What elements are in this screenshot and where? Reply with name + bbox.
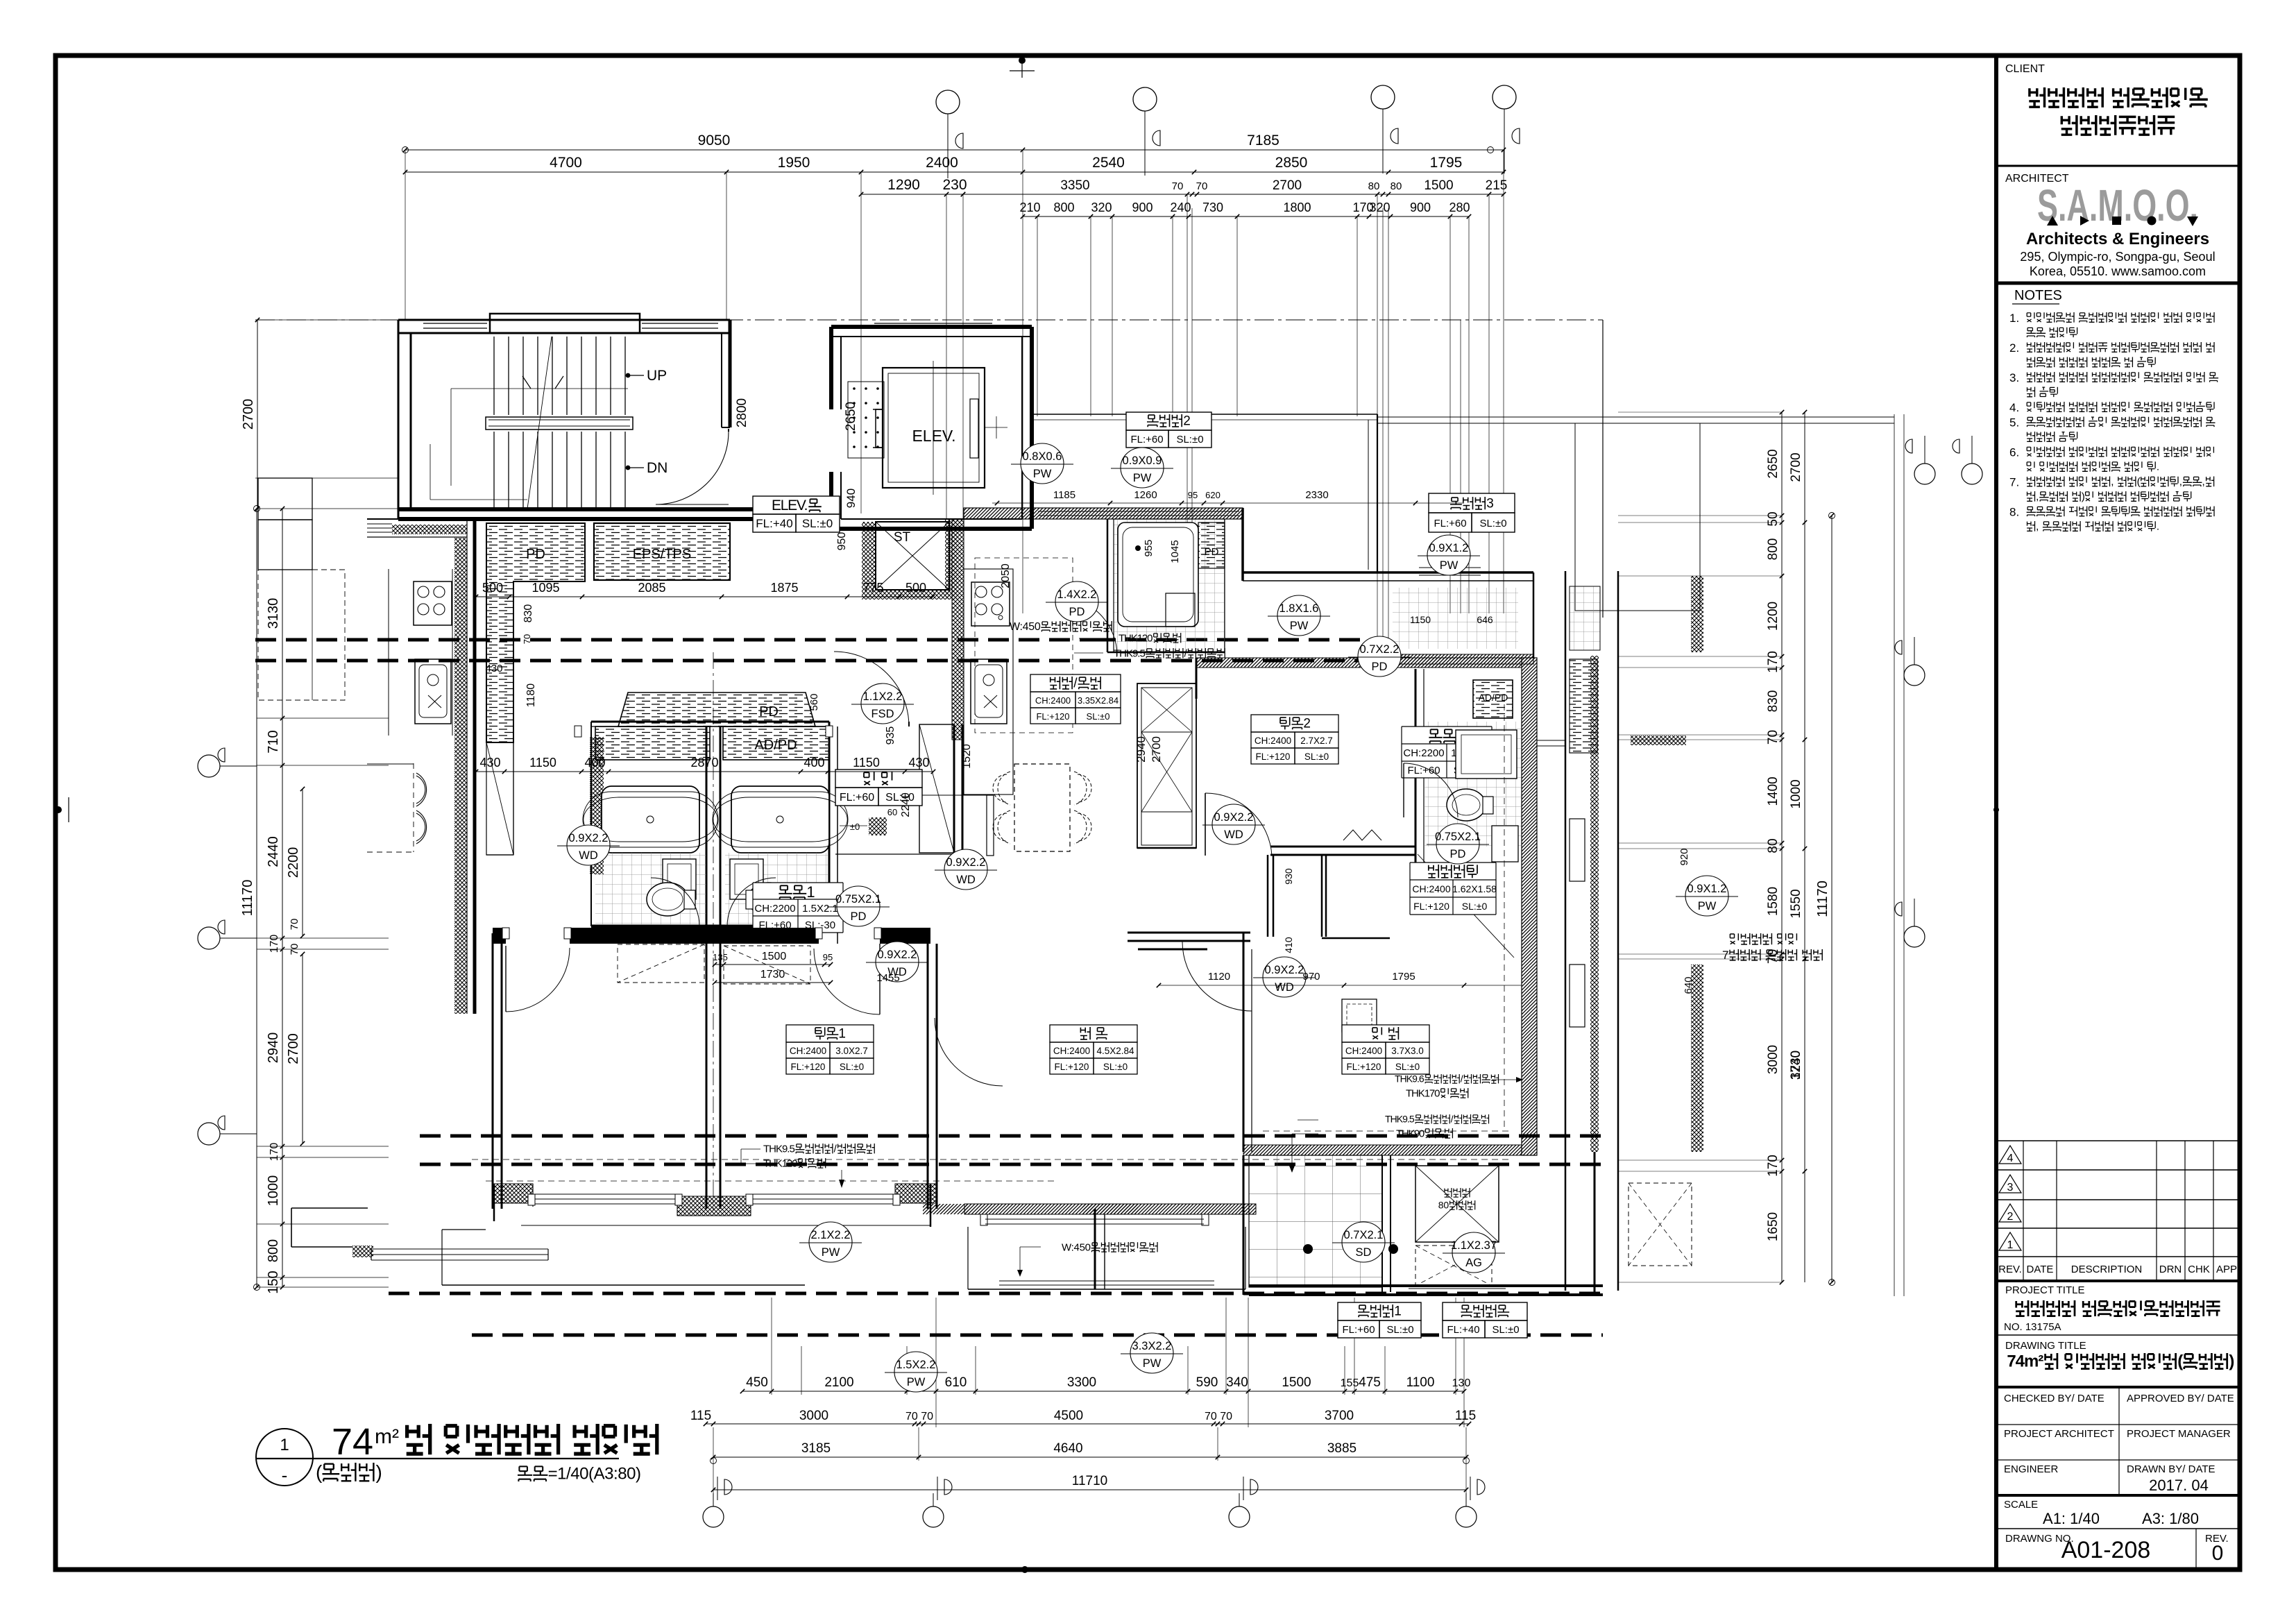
svg-text:FL:+120: FL:+120 (1036, 711, 1069, 722)
master door arc (1182, 942, 1252, 1011)
svg-text:1.: 1. (2009, 312, 2019, 325)
svg-text:1795: 1795 (1430, 155, 1463, 171)
balcony1 floor drain dots (1303, 1244, 1313, 1254)
bathroom tiled floors (595, 853, 706, 925)
opening label 3.3X2.2 PW (1130, 1333, 1173, 1373)
svg-text:,: , (2179, 476, 2182, 488)
bathroom2 tub small (1456, 730, 1517, 779)
svg-text:FL:+40: FL:+40 (756, 517, 792, 530)
balcony3 tiled floor (1393, 588, 1518, 649)
party hatched band left (454, 538, 467, 1014)
svg-text:W:450: W:450 (1062, 1241, 1091, 1253)
bath-top PD shaft (1198, 522, 1225, 568)
hall floor drain dots (848, 382, 884, 458)
svg-text:0.9X2.2: 0.9X2.2 (946, 856, 986, 869)
top dimension tier 1: 9050 / 7185 (405, 149, 1504, 151)
svg-text:3130: 3130 (266, 598, 281, 629)
svg-text:1000: 1000 (266, 1175, 281, 1207)
svg-text:1580: 1580 (1766, 887, 1780, 916)
bathroom2 label box (1402, 726, 1492, 778)
svg-text:80: 80 (1438, 1200, 1449, 1211)
svg-text:1455: 1455 (876, 972, 899, 984)
svg-text:935: 935 (885, 726, 896, 745)
svg-text:THK9.5: THK9.5 (1385, 1114, 1415, 1125)
building outline dash-dot line at top (255, 319, 1603, 321)
top dimension tier 3 (861, 194, 963, 195)
dressroom diagonal leader (1418, 854, 1514, 958)
svg-text:95: 95 (823, 952, 833, 962)
svg-text:70: 70 (289, 919, 300, 931)
stair flights (493, 337, 495, 415)
svg-text:0.7X2.2: 0.7X2.2 (1360, 643, 1400, 656)
top grid bubbles (936, 90, 960, 114)
neighbor bottom balcony step (441, 1230, 443, 1285)
svg-text:(: ( (316, 1461, 323, 1483)
right grid bubbles (1914, 464, 1935, 484)
svg-text:170: 170 (1766, 651, 1780, 673)
svg-text:SL:±0: SL:±0 (1479, 518, 1506, 529)
svg-text:FL:+60: FL:+60 (1407, 765, 1440, 776)
svg-text:74m²: 74m² (2007, 1352, 2043, 1371)
svg-text:ELEV.: ELEV. (912, 427, 955, 445)
sheet center mark right edge dot (1993, 807, 1999, 813)
svg-text:800: 800 (1053, 201, 1074, 214)
svg-text:170: 170 (269, 1143, 280, 1162)
svg-text:2.7X2.7: 2.7X2.7 (1300, 736, 1333, 746)
svg-text:DESCRIPTION: DESCRIPTION (2071, 1264, 2143, 1275)
svg-text:FL:+120: FL:+120 (1256, 751, 1291, 762)
svg-text:60: 60 (887, 807, 897, 817)
right basin (730, 859, 763, 899)
AD/PD shaft left (neighbor) (595, 726, 710, 760)
master bottom wall hatched (1243, 1145, 1522, 1155)
opening label 0.9X2.2 WD (567, 825, 610, 865)
dashed wardrobe boxes top of bedroom1 (724, 946, 810, 984)
svg-text:2: 2 (1183, 414, 1191, 429)
bathroom door arcs (651, 878, 699, 926)
svg-text:PW: PW (1290, 620, 1309, 632)
far right vertical thin lines (1894, 414, 1895, 1296)
opening label 1.5X2.2 PW (894, 1352, 937, 1392)
svg-text:240: 240 (1170, 201, 1191, 214)
opening label 0.7X2.2 PD (1358, 636, 1401, 677)
svg-text:340: 340 (1226, 1375, 1248, 1390)
svg-text:2.1X2.2: 2.1X2.2 (811, 1229, 851, 1241)
svg-text:FL:+40: FL:+40 (1447, 1324, 1479, 1336)
svg-text:3.0X2.7: 3.0X2.7 (835, 1046, 868, 1056)
svg-text:1200: 1200 (1766, 602, 1780, 631)
living bottom wall hatched (964, 1204, 1256, 1214)
svg-text:ST: ST (894, 530, 911, 545)
sheet center mark bottom (1021, 1566, 1028, 1573)
stair door opening & arc (722, 427, 730, 428)
bedroom1 door arc top (879, 944, 881, 1014)
svg-text:DRAWN BY/ DATE: DRAWN BY/ DATE (2127, 1463, 2216, 1475)
svg-text:115: 115 (690, 1409, 711, 1423)
svg-text:WD: WD (1224, 829, 1243, 841)
svg-text:3.7X3.0: 3.7X3.0 (1391, 1046, 1424, 1056)
right neighbor tower (1565, 571, 1567, 1291)
stair block outer walls (398, 320, 730, 519)
svg-text:CH:2400: CH:2400 (1255, 736, 1291, 746)
svg-text:3: 3 (2007, 1182, 2014, 1193)
master right wall insulated hatched (1522, 658, 1537, 1155)
svg-text:70 70: 70 70 (905, 1411, 933, 1422)
svg-text:CH:2200: CH:2200 (1403, 747, 1444, 759)
dashed insulation offset in living (472, 1159, 1513, 1160)
svg-text:DATE: DATE (2027, 1264, 2054, 1275)
svg-text:3885: 3885 (1327, 1441, 1357, 1456)
svg-text:1180: 1180 (525, 683, 537, 708)
svg-text:475: 475 (1359, 1375, 1381, 1390)
svg-text:1150: 1150 (1410, 614, 1431, 625)
ST shaft hatched walls (862, 522, 876, 590)
svg-text:2400: 2400 (926, 155, 958, 171)
svg-text:3000: 3000 (1766, 1045, 1780, 1074)
bathroom outer left wall hatched (590, 722, 592, 926)
svg-text:EPS/TPS: EPS/TPS (633, 547, 691, 562)
balcony2 side rail lines (1032, 414, 1377, 415)
svg-text:FL:+60: FL:+60 (1342, 1324, 1375, 1336)
svg-text:2650: 2650 (1766, 449, 1780, 478)
svg-text:1500: 1500 (1424, 178, 1453, 193)
svg-text:,: , (2036, 491, 2039, 503)
kitchen/dining label box (1030, 674, 1121, 724)
svg-text:PD: PD (1450, 848, 1466, 860)
left extension lines (257, 717, 389, 719)
svg-text:590: 590 (1196, 1375, 1218, 1390)
svg-text:50: 50 (1766, 511, 1780, 526)
svg-text:,: , (2111, 476, 2114, 488)
svg-text:1120: 1120 (1208, 971, 1230, 983)
svg-text:2650: 2650 (844, 402, 858, 431)
AC room escape hatch box (1415, 1166, 1499, 1242)
svg-text:710: 710 (266, 730, 281, 753)
entrance door FSD arc (834, 652, 909, 726)
svg-text:500: 500 (905, 581, 926, 595)
svg-text:3000: 3000 (799, 1409, 828, 1423)
svg-text:1.5X2.1: 1.5X2.1 (802, 903, 838, 915)
svg-text:7.: 7. (2009, 476, 2019, 489)
neighbor lower-left window band (371, 1248, 548, 1250)
PD horizontal shaft mid (618, 692, 815, 726)
elevator room walls (831, 325, 1032, 329)
balcony1 label box (1338, 1302, 1421, 1338)
svg-text:REV.: REV. (1998, 1264, 2022, 1275)
left bathtub (neighbor) (602, 786, 699, 853)
svg-text:CH:2400: CH:2400 (790, 1046, 826, 1056)
svg-text:900: 900 (1410, 201, 1431, 214)
svg-text:320: 320 (1091, 201, 1112, 214)
svg-text:THK170: THK170 (1406, 1087, 1440, 1099)
right bathtub (unit) (731, 786, 829, 853)
svg-text:0.75X2.1: 0.75X2.1 (835, 893, 881, 906)
svg-text:SL:±0: SL:±0 (1386, 1324, 1413, 1336)
svg-text:11710: 11710 (1072, 1474, 1107, 1488)
closet double door zigzag (1343, 830, 1381, 840)
left dimension column (282, 509, 283, 1287)
bath-top wall bottom (1107, 652, 1225, 654)
svg-text:70: 70 (1766, 730, 1780, 745)
bathroom right wall (828, 722, 831, 926)
master left wall (1243, 933, 1245, 1152)
svg-text:1.4X2.2: 1.4X2.2 (1057, 588, 1097, 601)
svg-text:PW: PW (1133, 472, 1152, 484)
svg-text:THK9.6: THK9.6 (1395, 1073, 1425, 1085)
svg-text:1150: 1150 (529, 756, 556, 770)
svg-text:1150: 1150 (853, 756, 880, 770)
bathroom1 label box (753, 883, 843, 933)
svg-text:3.3X2.2: 3.3X2.2 (1132, 1340, 1172, 1352)
svg-text:PW: PW (822, 1246, 840, 1259)
svg-text:800: 800 (1766, 538, 1780, 561)
svg-text:646: 646 (1477, 614, 1493, 625)
svg-text:CHECKED BY/ DATE: CHECKED BY/ DATE (2004, 1393, 2104, 1404)
note right side 7th floor (1730, 933, 1738, 944)
svg-text:730: 730 (1202, 201, 1223, 214)
bottom dimensions (742, 1391, 1464, 1392)
bath-top basin (1166, 593, 1195, 627)
bedroom2 bottom wall (1270, 846, 1415, 848)
svg-text:SL:±0: SL:±0 (1492, 1324, 1519, 1336)
svg-text:830: 830 (522, 604, 534, 623)
svg-text:900: 900 (1132, 201, 1153, 214)
svg-text:PW: PW (1698, 900, 1717, 912)
svg-text:,: , (2036, 521, 2039, 533)
bedroom2 label box (1251, 715, 1338, 764)
svg-text:THK120: THK120 (1119, 632, 1153, 644)
hatched vertical wall left of kitchen (952, 519, 964, 740)
stair top wall window bulge (490, 314, 640, 333)
party axis dash-dot (713, 652, 714, 1211)
svg-text:PD: PD (1205, 546, 1219, 558)
PD shaft top-left L-shape (486, 523, 585, 742)
svg-text:CH:2400: CH:2400 (1412, 883, 1450, 894)
svg-text:A01-208: A01-208 (2061, 1537, 2151, 1563)
svg-text:95: 95 (1188, 490, 1198, 500)
interior dims row (500 1095 2085 1875 775 500) (476, 596, 933, 597)
svg-text:SL:±0: SL:±0 (1462, 901, 1488, 912)
svg-text:800: 800 (266, 1239, 281, 1262)
opening label 1.8X1.6 PW (1277, 595, 1320, 636)
svg-text:A3: 1/80: A3: 1/80 (2142, 1510, 2199, 1527)
bedroom top wall (493, 928, 506, 944)
svg-text:1: 1 (1394, 1305, 1402, 1319)
bottom-right outer walls (1249, 1284, 1603, 1287)
svg-text:4: 4 (2007, 1153, 2014, 1164)
svg-text:3185: 3185 (801, 1441, 831, 1456)
svg-text:170: 170 (269, 935, 280, 953)
svg-text:1.5X2.2: 1.5X2.2 (896, 1359, 936, 1371)
svg-text:CHK: CHK (2188, 1264, 2210, 1275)
svg-text:): ) (2082, 491, 2085, 503)
svg-text:3300: 3300 (1067, 1375, 1096, 1390)
svg-text:1500: 1500 (762, 951, 787, 962)
svg-text:0.9X0.9: 0.9X0.9 (1123, 454, 1162, 467)
svg-text:2700: 2700 (1273, 178, 1302, 193)
svg-text:SL:±0: SL:±0 (1103, 1062, 1128, 1072)
svg-text:SL:±0: SL:±0 (1304, 751, 1329, 762)
living room label box (1050, 1025, 1137, 1074)
party wall between bathrooms (706, 726, 708, 926)
balcony3 outer wall (1243, 571, 1533, 574)
svg-text:70: 70 (1172, 180, 1184, 192)
interior dims row (430 1150 400 2870 400 1150 430) (476, 771, 933, 772)
svg-text:2700: 2700 (286, 1033, 301, 1064)
neighbor top wall window band + hatch (367, 518, 467, 520)
opening label 2.1X2.2 PW (809, 1222, 852, 1262)
svg-text:1550: 1550 (1789, 889, 1803, 918)
balcony1/AC divider (1381, 1155, 1383, 1292)
svg-text:400: 400 (584, 756, 605, 770)
svg-text:): ) (2229, 1352, 2234, 1371)
grid intersection circles (254, 506, 260, 512)
svg-text:3: 3 (1486, 497, 1494, 511)
bathroom bottom wall (591, 925, 829, 928)
svg-text:DRAWING TITLE: DRAWING TITLE (2005, 1340, 2086, 1352)
opening label 1.1X2.2 FSD (861, 683, 904, 724)
neighbor left edge boxes (258, 478, 312, 520)
svg-text:=1/40(A3:80): =1/40(A3:80) (548, 1465, 641, 1484)
svg-text:PD: PD (759, 704, 779, 720)
svg-text:5.: 5. (2009, 416, 2019, 430)
svg-text:/: / (1461, 1073, 1463, 1085)
svg-text:0.7X2.1: 0.7X2.1 (1344, 1229, 1384, 1241)
svg-text:2.: 2. (2009, 341, 2019, 355)
svg-text:1000: 1000 (1789, 779, 1803, 808)
opening label 0.7X2.1 SD (1342, 1222, 1385, 1262)
svg-text:7: 7 (1722, 949, 1728, 962)
svg-text:2050: 2050 (1000, 563, 1012, 588)
svg-text:4700: 4700 (550, 155, 582, 171)
svg-text:170: 170 (1766, 1155, 1780, 1177)
balcony3 label box (1429, 493, 1515, 532)
svg-text:SCALE: SCALE (2004, 1499, 2038, 1511)
svg-text:PD: PD (1372, 661, 1388, 673)
entrance step hatch (869, 817, 887, 835)
svg-text:Korea, 05510. www.samoo.com: Korea, 05510. www.samoo.com (2030, 264, 2206, 278)
title block outer (1994, 56, 1998, 1570)
svg-text:FL:+60: FL:+60 (1434, 518, 1466, 529)
living window band (985, 1214, 1204, 1215)
svg-text:4500: 4500 (1054, 1409, 1083, 1423)
svg-text:9050: 9050 (698, 133, 731, 148)
svg-text:.: . (2157, 521, 2159, 533)
svg-text:3.35X2.84: 3.35X2.84 (1078, 695, 1119, 706)
bathroom walls top (591, 721, 829, 723)
bedroom1 window band (533, 1193, 677, 1195)
AD/PD right of kitchen bath (1473, 680, 1513, 718)
svg-text:ENGINEER: ENGINEER (2004, 1463, 2059, 1475)
svg-text:CH:2400: CH:2400 (1035, 695, 1071, 706)
inner kitchen walls around PD (513, 581, 514, 855)
svg-text:1875: 1875 (770, 581, 798, 595)
divider architect/notes (1996, 282, 2240, 285)
svg-text:2: 2 (1303, 717, 1311, 731)
opening label 0.9X2.2 WD (876, 942, 919, 982)
opening label 1.4X2.2 PD (1055, 581, 1098, 622)
svg-text:NOTES: NOTES (2014, 288, 2062, 303)
svg-text:PD: PD (1069, 606, 1085, 618)
svg-text:(: ( (2137, 476, 2141, 488)
svg-text:PW: PW (1033, 468, 1052, 480)
svg-text:940: 940 (844, 488, 858, 508)
closet strip with X boxes (1137, 683, 1196, 848)
balcony3 unit wall hatched (1377, 654, 1533, 664)
kitchen stove (971, 582, 1010, 626)
svg-text:3350: 3350 (1060, 178, 1089, 193)
left toilet (647, 883, 688, 916)
svg-text:1045: 1045 (1169, 540, 1181, 563)
svg-text:1400: 1400 (1766, 776, 1780, 806)
svg-text:6.: 6. (2009, 446, 2019, 459)
ST shaft box with X (876, 522, 949, 590)
svg-text:SL:±0: SL:±0 (840, 1062, 864, 1072)
svg-text:AG: AG (1465, 1257, 1482, 1269)
svg-text:1730: 1730 (760, 969, 785, 980)
svg-text:CH:2400: CH:2400 (1053, 1046, 1090, 1056)
top wall window bands over bath (1038, 511, 1239, 512)
svg-text:FL:+120: FL:+120 (1055, 1062, 1089, 1072)
svg-text:1500: 1500 (1282, 1375, 1311, 1390)
AC room label box (1443, 1302, 1527, 1338)
svg-text:2700: 2700 (1150, 736, 1163, 763)
svg-text:70 70: 70 70 (1205, 1411, 1232, 1422)
svg-text:295, Olympic-ro, Songpa-gu, Se: 295, Olympic-ro, Songpa-gu, Seoul (2020, 250, 2215, 264)
svg-text:950: 950 (836, 532, 848, 551)
svg-text:115: 115 (1455, 1409, 1476, 1423)
svg-text:2100: 2100 (824, 1375, 853, 1390)
entrance label box (835, 770, 922, 806)
svg-text:WD: WD (956, 874, 976, 886)
svg-text:2850: 2850 (1275, 155, 1308, 171)
bedroom2 door leaf and arc (1205, 793, 1206, 856)
svg-text:PW: PW (1440, 559, 1459, 572)
svg-text:2240: 2240 (900, 792, 912, 817)
drawing title circle symbol (256, 1429, 313, 1486)
bedroom1/living divider wall (927, 944, 929, 1209)
svg-text:-: - (282, 1465, 288, 1486)
svg-text:A1: 1/40: A1: 1/40 (2043, 1510, 2100, 1527)
svg-text:320: 320 (1369, 201, 1390, 214)
bedroom2 top wall hatched (1196, 658, 1522, 668)
svg-text:2440: 2440 (266, 836, 281, 867)
bathroom2 tiles (1424, 722, 1522, 847)
svg-text:FL:+60: FL:+60 (1130, 434, 1163, 445)
svg-text:SL:±0: SL:±0 (1395, 1062, 1420, 1072)
svg-text:410: 410 (1283, 937, 1294, 953)
left stair vertical dim 2700 (257, 320, 258, 509)
svg-text:135: 135 (713, 952, 728, 962)
svg-text:80: 80 (1391, 180, 1402, 192)
right toilet (748, 883, 790, 916)
svg-text:2330: 2330 (1305, 489, 1328, 501)
svg-text:1.1X2.37: 1.1X2.37 (1451, 1239, 1497, 1252)
svg-text:1290: 1290 (887, 177, 920, 193)
svg-text:1.62X1.58: 1.62X1.58 (1452, 883, 1497, 894)
neighbor counter lines (388, 569, 389, 736)
svg-text:230: 230 (942, 177, 967, 193)
svg-text:1950: 1950 (778, 155, 810, 171)
bathroom2 toilet (1447, 789, 1486, 821)
opening label 0.9X2.2 WD (944, 849, 987, 890)
living balcony left step wall (1094, 1209, 1096, 1289)
elevator car door mark (970, 399, 978, 458)
svg-text:2800: 2800 (735, 398, 749, 427)
svg-text:0.75X2.1: 0.75X2.1 (1435, 831, 1481, 843)
bottom dim extension lines (771, 1298, 772, 1395)
neighbor bedroom left wall (492, 933, 494, 1209)
